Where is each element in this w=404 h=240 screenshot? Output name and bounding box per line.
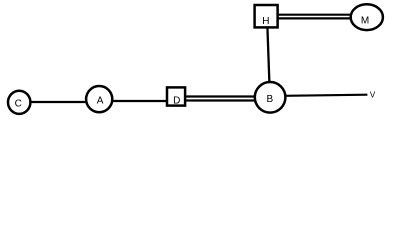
svg-text:B: B	[266, 94, 273, 105]
svg-text:M: M	[361, 16, 369, 27]
svg-text:A: A	[97, 96, 104, 107]
svg-text:H: H	[262, 16, 269, 27]
svg-text:V: V	[370, 90, 376, 99]
svg-text:C: C	[15, 99, 22, 110]
svg-text:D: D	[173, 95, 180, 106]
